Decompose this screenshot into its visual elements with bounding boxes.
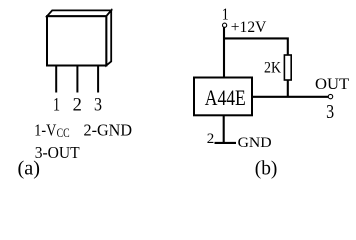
svg-text:2K: 2K: [264, 60, 281, 77]
svg-text:1: 1: [222, 4, 229, 23]
svg-text:OUT: OUT: [315, 76, 350, 93]
svg-text:CC: CC: [57, 126, 70, 140]
svg-text:1-V: 1-V: [34, 120, 57, 139]
svg-text:3-OUT: 3-OUT: [35, 143, 81, 162]
svg-text:2: 2: [207, 131, 215, 147]
svg-text:(a): (a): [18, 158, 41, 180]
svg-text:(b): (b): [255, 158, 278, 180]
svg-text:1: 1: [53, 96, 60, 116]
svg-text:3: 3: [94, 96, 102, 116]
svg-text:A44E: A44E: [205, 85, 246, 110]
svg-text:GND: GND: [238, 135, 272, 151]
svg-text:2-GND: 2-GND: [84, 120, 133, 139]
svg-text:2: 2: [73, 96, 82, 116]
svg-text:+12V: +12V: [231, 19, 267, 36]
svg-text:3: 3: [326, 101, 334, 123]
